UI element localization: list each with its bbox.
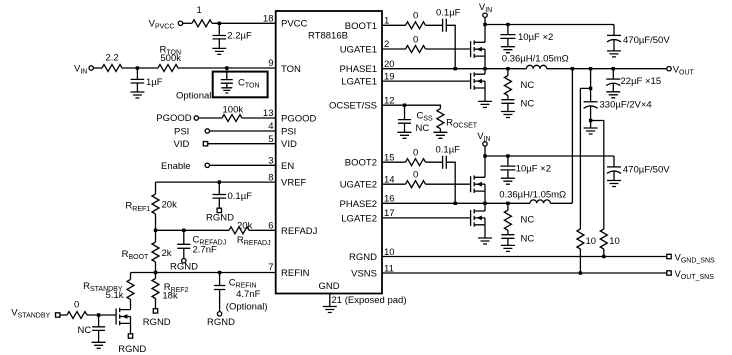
svg-text:2.7nF: 2.7nF xyxy=(193,244,217,255)
svg-text:NC: NC xyxy=(78,325,92,336)
IC pin 4 PSI xyxy=(268,121,296,138)
wire R0 to Q5 gate xyxy=(87,314,116,316)
capacitor 0.1uF (VREF) xyxy=(213,182,227,208)
ground (1uF) xyxy=(130,92,144,98)
svg-text:VIN: VIN xyxy=(74,64,87,76)
junction REFADJ / CREFADJ xyxy=(182,229,185,232)
wire pin 2 UGATE1 to R0 xyxy=(382,48,406,50)
resistor 0 (BOOT2) xyxy=(406,159,426,166)
IC U1 RT8816B body xyxy=(276,11,382,294)
svg-text:Enable: Enable xyxy=(161,161,191,172)
ground (470uF phase1) xyxy=(607,51,621,57)
ground (CTON) xyxy=(221,88,232,93)
wire VIN terminal to R2 xyxy=(93,67,102,69)
svg-text:PHASE1: PHASE1 xyxy=(340,64,378,75)
junction VIN rail / 10uF (phase2) xyxy=(506,154,509,157)
resistor RTON 500k xyxy=(158,65,178,72)
wire boot2 cap to PHASE2 node xyxy=(446,162,455,203)
ground (10uF phase2) xyxy=(501,178,515,184)
resistor NC (snubber phase2) xyxy=(504,203,511,234)
svg-text:PSI: PSI xyxy=(281,127,296,138)
capacitor CTON xyxy=(221,68,233,88)
resistor 0 (UGATE1) xyxy=(406,46,426,53)
wire pin 17 LGATE2 to Q4 gate xyxy=(382,217,471,219)
IC pin 3 EN xyxy=(268,156,294,172)
svg-text:OCSET/SS: OCSET/SS xyxy=(329,101,377,112)
svg-text:10µF ×2: 10µF ×2 xyxy=(516,164,551,175)
capacitor CSS (NC) xyxy=(398,105,411,132)
junction PHASE2 / boot cap return xyxy=(454,202,457,205)
wire Enable to pin 3 EN xyxy=(210,164,276,166)
svg-text:4.7nF: 4.7nF xyxy=(236,289,260,300)
terminal RGND (Q5 source) xyxy=(128,334,132,338)
svg-text:500k: 500k xyxy=(160,53,181,64)
capacitor 1uF xyxy=(131,68,145,92)
wire VIN to rail (phase1) xyxy=(484,17,486,24)
wire RREFADJ to RREF1 column xyxy=(156,229,230,231)
svg-text:EN: EN xyxy=(281,161,294,172)
wire Q3 drain xyxy=(484,156,486,177)
resistor 10 (VOUT sense) xyxy=(577,229,584,249)
junction REFIN / RREF2 xyxy=(154,271,157,274)
resistor R1 1 xyxy=(192,20,212,27)
svg-text:470µF/50V: 470µF/50V xyxy=(623,35,670,46)
wire Q2 drain to PHASE1 xyxy=(484,69,486,75)
svg-text:0.1µF: 0.1µF xyxy=(436,144,461,155)
wire Q3 source to PHASE2 xyxy=(484,191,486,203)
wire rail to 470uF (phase1) xyxy=(613,25,615,36)
svg-text:7: 7 xyxy=(268,262,273,273)
ground (330uF) xyxy=(584,128,598,134)
svg-text:22µF ×15: 22µF ×15 xyxy=(621,76,662,87)
resistor RREF2 18k xyxy=(152,279,159,299)
ground (snubber phase1) xyxy=(501,112,515,118)
svg-text:VIN: VIN xyxy=(479,2,492,14)
wire REFIN to RSTANDBY xyxy=(130,273,132,280)
svg-text:20k: 20k xyxy=(162,199,178,210)
svg-text:0: 0 xyxy=(74,300,79,311)
wire boot1 cap to PHASE1 node xyxy=(446,25,455,68)
svg-text:RREF1: RREF1 xyxy=(125,201,150,213)
svg-text:NC: NC xyxy=(521,80,535,91)
svg-text:RGND: RGND xyxy=(206,213,234,224)
terminal PGOOD xyxy=(194,116,198,120)
capacitor NC (snubber phase1) xyxy=(501,100,514,112)
svg-text:VGND_SNS: VGND_SNS xyxy=(675,253,716,265)
IC pin 11 VSNS xyxy=(351,263,394,279)
wire RSTANDBY to Q5 drain xyxy=(130,299,132,309)
capacitor NC (standby) xyxy=(92,315,105,342)
wire Q4 source to ground xyxy=(484,225,486,238)
svg-text:2.2µF: 2.2µF xyxy=(227,31,252,42)
junction standby NC cap xyxy=(97,313,100,316)
ground (standby NC cap) xyxy=(92,342,106,348)
resistor 0 (UGATE2) xyxy=(406,181,426,188)
transistor Q1 (high-side phase1) xyxy=(471,40,485,58)
svg-text:RGND: RGND xyxy=(349,252,377,263)
junction VOUT / 330uF xyxy=(589,67,592,70)
svg-text:0.36µH/1.05mΩ: 0.36µH/1.05mΩ xyxy=(499,189,566,200)
svg-text:(Optional): (Optional) xyxy=(226,302,268,313)
wire VIN rail (phase2) xyxy=(485,155,614,157)
wire PGOOD terminal to R100k xyxy=(199,117,223,119)
ground (exposed pad) xyxy=(323,307,337,313)
terminal RGND (RREF2) xyxy=(153,309,157,313)
ground (snubber phase2) xyxy=(501,245,515,251)
svg-text:VPVCC: VPVCC xyxy=(149,19,175,31)
junction PHASE1 / FETs xyxy=(483,67,486,70)
IC pin 1 BOOT1 xyxy=(345,16,390,32)
resistor 100k (PGOOD) xyxy=(222,115,242,122)
svg-text:470µF/50V: 470µF/50V xyxy=(623,164,670,175)
svg-text:CSS: CSS xyxy=(417,110,434,122)
svg-text:PHASE2: PHASE2 xyxy=(340,199,378,210)
svg-text:UGATE1: UGATE1 xyxy=(340,45,377,56)
junction 330uF ground node xyxy=(589,119,592,122)
wire Q5 source to RGND xyxy=(130,323,132,333)
svg-text:1: 1 xyxy=(197,5,202,16)
svg-text:VREF: VREF xyxy=(281,178,307,189)
svg-text:RGND: RGND xyxy=(207,317,235,328)
wire PSI to pin 4 xyxy=(210,130,276,132)
wire sense tap jog to left sense column xyxy=(580,88,590,229)
terminal VIN (phase2) xyxy=(483,142,487,146)
wire UGATE2 R0 to Q3 gate xyxy=(426,183,471,185)
wire VOUT to 330uF xyxy=(590,69,592,102)
svg-text:Optional: Optional xyxy=(176,91,211,102)
resistor 10 (GND sense) xyxy=(600,229,607,249)
svg-text:10: 10 xyxy=(586,236,597,247)
capacitor 22uF x15 xyxy=(606,69,620,92)
transistor Q3 (high-side phase2) xyxy=(471,175,485,193)
terminal VSTANDBY xyxy=(56,313,60,317)
terminal VID xyxy=(203,142,207,146)
wire VIN to rail (phase2) xyxy=(484,146,486,156)
svg-text:REFIN: REFIN xyxy=(281,268,310,279)
terminal VIN xyxy=(89,66,93,70)
inductor L2 0.36uH/1.05mohm xyxy=(530,200,550,203)
svg-text:NC: NC xyxy=(416,123,430,134)
svg-text:RGND: RGND xyxy=(143,317,171,328)
ground (22uF) xyxy=(606,92,620,98)
junction PHASE2 / NC snubber xyxy=(506,202,509,205)
svg-text:PVCC: PVCC xyxy=(281,19,308,30)
junction VSNS / VOUT sense R xyxy=(579,271,582,274)
wire VSTANDBY to R0 xyxy=(60,314,67,316)
capacitor 470uF/50V (phase2) xyxy=(607,167,621,181)
IC pin 14 UGATE2 xyxy=(340,175,395,191)
IC pin 12 OCSET/SS xyxy=(329,96,395,112)
svg-text:TON: TON xyxy=(281,64,301,75)
wire pin 14 UGATE2 to R0 xyxy=(382,183,406,185)
svg-text:VOUT_SNS: VOUT_SNS xyxy=(675,269,715,281)
wire R0 to C boot2 xyxy=(426,161,443,163)
svg-text:BOOT2: BOOT2 xyxy=(345,158,377,169)
resistor 0 (standby) xyxy=(67,312,87,319)
junction OCSET / CSS xyxy=(403,104,406,107)
wire GND pad stub xyxy=(329,294,331,307)
svg-text:LGATE2: LGATE2 xyxy=(341,213,377,224)
svg-text:VSTANDBY: VSTANDBY xyxy=(11,308,50,320)
IC pin 7 REFIN xyxy=(268,262,309,279)
svg-text:2.2: 2.2 xyxy=(106,53,119,64)
IC pin 6 REFADJ xyxy=(268,221,317,237)
resistor NC (snubber phase1) xyxy=(504,69,511,100)
wire Q2 source to ground xyxy=(484,88,486,101)
svg-text:20k: 20k xyxy=(237,220,253,231)
resistor RREF1 20k xyxy=(152,194,159,214)
capacitor 10uF x2 (phase2) xyxy=(500,156,515,178)
ground (Q4 source) xyxy=(478,238,492,244)
svg-text:NC: NC xyxy=(521,215,535,226)
svg-text:VID: VID xyxy=(174,139,190,150)
wire L2 to VOUT column xyxy=(550,202,572,204)
junction VREF / 0.1uF xyxy=(218,180,221,183)
svg-text:ROCSET: ROCSET xyxy=(446,118,478,130)
svg-text:0.36µH/1.05mΩ: 0.36µH/1.05mΩ xyxy=(502,53,569,64)
svg-text:RGND: RGND xyxy=(118,344,146,355)
wire RREF2 to RGND terminal xyxy=(155,299,157,309)
wire pin 16 PHASE2 line xyxy=(382,202,530,204)
capacitor 10uF x2 (phase1) xyxy=(500,25,515,47)
svg-text:1µF: 1µF xyxy=(146,77,163,88)
junction VIN / 1uF xyxy=(136,66,139,69)
IC pin 18 PVCC xyxy=(263,13,308,29)
wire RTON to pin 9 TON xyxy=(178,67,276,69)
resistor RBOOT 2k xyxy=(152,242,159,262)
svg-text:LGATE1: LGATE1 xyxy=(341,77,377,88)
junction PHASE1 / NC snubber xyxy=(506,67,509,70)
svg-text:NC: NC xyxy=(521,233,535,244)
IC pin 20 PHASE1 xyxy=(340,59,395,75)
wire pin 15 BOOT2 to R0 xyxy=(382,161,406,163)
optional box around CTON xyxy=(213,72,268,98)
transistor Q2 (low-side phase1) xyxy=(471,72,485,90)
wire VOUT down to L2 output xyxy=(571,69,573,204)
capacitor 470uF/50V (phase1) xyxy=(607,35,621,51)
junction VIN rail / Q3 drain xyxy=(483,154,486,157)
wire pin 11 VSNS sense line xyxy=(382,272,667,274)
terminal VPVCC xyxy=(178,21,182,25)
svg-text:GND: GND xyxy=(319,281,340,292)
junction VIN rail / Q1 drain xyxy=(483,23,486,26)
junction REFADJ / RREF1 / RBOOT xyxy=(154,229,157,232)
wire R1 to pin 18 PVCC xyxy=(212,22,276,24)
wire pin 6 REFADJ to RREFADJ xyxy=(249,229,276,231)
wire RREF2 top xyxy=(155,273,157,279)
junction PVCC / 2.2uF xyxy=(218,22,221,25)
IC pin 8 VREF xyxy=(268,172,306,188)
junction RGND / GND sense R xyxy=(602,255,605,258)
terminal VOUT_SNS xyxy=(667,271,671,275)
IC pin 15 BOOT2 xyxy=(345,153,395,169)
svg-text:100k: 100k xyxy=(223,105,244,116)
capacitor NC (snubber phase2) xyxy=(501,235,514,246)
svg-text:BOOT1: BOOT1 xyxy=(345,21,377,32)
IC pin 9 TON xyxy=(268,58,301,75)
wire VOUT sense R to VSNS line xyxy=(579,249,581,273)
wire 100k to pin 13 PGOOD xyxy=(242,117,276,119)
wire ground sense jog to right sense column xyxy=(591,121,604,230)
terminal VGND_SNS xyxy=(667,254,671,258)
svg-text:CREFIN: CREFIN xyxy=(229,278,257,290)
svg-text:0: 0 xyxy=(413,169,418,180)
capacitor CREFADJ 2.7nF xyxy=(177,230,190,258)
junction PHASE2 / FETs xyxy=(483,202,486,205)
junction REFIN / CREFIN xyxy=(218,271,221,274)
junction VOUT / 22uF xyxy=(612,67,615,70)
svg-text:VOUT: VOUT xyxy=(673,65,695,77)
junction VOUT / sense column xyxy=(571,67,574,70)
svg-text:UGATE2: UGATE2 xyxy=(340,180,377,191)
wire Q1 drain xyxy=(484,25,486,43)
wire Q4 drain to PHASE2 xyxy=(484,203,486,211)
svg-text:2k: 2k xyxy=(162,248,172,259)
wire VIN rail (phase1) xyxy=(485,24,614,26)
terminal VOUT xyxy=(667,67,671,71)
wire RREF1 to REFADJ row xyxy=(155,214,157,230)
svg-text:PGOOD: PGOOD xyxy=(156,113,192,124)
wire UGATE1 R0 to Q1 gate xyxy=(426,48,471,50)
IC pin 21 GND exposed pad xyxy=(319,281,407,306)
wire pin 8 VREF to RREF1 column xyxy=(156,181,276,183)
IC pin 13 PGOOD xyxy=(263,108,317,125)
transistor Q4 (low-side phase2) xyxy=(471,209,485,227)
terminal RGND (CREFADJ) xyxy=(182,259,186,263)
svg-text:0: 0 xyxy=(413,34,418,45)
svg-text:PSI: PSI xyxy=(174,127,189,138)
svg-text:0: 0 xyxy=(413,11,418,22)
ground (470uF phase2) xyxy=(607,181,621,187)
resistor RSTANDBY 5.1k xyxy=(127,279,134,299)
wire L1 to VOUT terminal xyxy=(547,68,667,70)
terminal VIN (phase1) xyxy=(483,13,487,17)
wire VID to pin 5 xyxy=(208,143,276,145)
svg-text:REFADJ: REFADJ xyxy=(281,226,318,237)
wire pin 19 LGATE1 to Q2 gate xyxy=(382,80,471,82)
ground (CSS) xyxy=(398,132,412,138)
wire rail to 470uF (phase2) xyxy=(613,156,615,167)
junction PHASE1 / boot cap return xyxy=(454,67,457,70)
svg-text:10µF ×2: 10µF ×2 xyxy=(518,32,553,43)
IC pin 17 LGATE2 xyxy=(341,208,394,224)
junction TON / CTON xyxy=(225,66,228,69)
ground (2.2uF) xyxy=(212,48,226,54)
ground (Q2 source) xyxy=(478,101,492,107)
wire R0 to C boot1 xyxy=(426,24,443,26)
resistor 0 (BOOT1) xyxy=(406,22,426,29)
wire pin 12 OCSET/SS xyxy=(382,105,440,109)
svg-text:RBOOT: RBOOT xyxy=(122,249,149,261)
transistor Q5 (standby N-MOSFET) xyxy=(116,308,130,326)
wire VREF column to RREF1 xyxy=(155,182,157,194)
terminal RGND (CREFIN) xyxy=(217,312,221,316)
resistor ROCSET xyxy=(437,109,444,129)
resistor R2 2.2 xyxy=(102,65,122,72)
svg-text:RGND: RGND xyxy=(170,261,198,272)
wire R2 to RTON xyxy=(122,67,158,69)
wire RBOOT top xyxy=(155,230,157,242)
terminal PSI xyxy=(205,129,209,133)
wire pin 10 RGND sense line xyxy=(382,256,667,258)
svg-text:CTON: CTON xyxy=(238,78,260,90)
junction VIN rail / 10uF xyxy=(506,23,509,26)
terminal Enable xyxy=(205,163,209,167)
svg-text:0.1µF: 0.1µF xyxy=(228,191,253,202)
svg-text:5.1k: 5.1k xyxy=(106,290,124,301)
svg-text:PGOOD: PGOOD xyxy=(281,114,317,125)
svg-text:330µF/2V×4: 330µF/2V×4 xyxy=(600,100,652,111)
IC pin 10 RGND xyxy=(349,247,395,263)
wire pin 20 PHASE1 line xyxy=(382,68,526,70)
svg-text:RREFADJ: RREFADJ xyxy=(237,235,271,247)
ground (ROCSET) xyxy=(433,132,447,138)
capacitor CREFIN 4.7nF xyxy=(214,273,225,312)
capacitor 0.1uF (BOOT1) xyxy=(443,19,447,32)
IC pin 5 VID xyxy=(268,134,297,150)
ground (10uF phase1) xyxy=(501,47,515,53)
svg-text:VID: VID xyxy=(281,139,297,150)
svg-text:NC: NC xyxy=(521,98,535,109)
terminal RGND (VREF 0.1uF) xyxy=(217,208,221,212)
IC pin 16 PHASE2 xyxy=(340,194,395,210)
svg-text:VSNS: VSNS xyxy=(351,269,377,280)
inductor L1 0.36uH/1.05mohm xyxy=(526,65,546,68)
junction VOUT sense tap xyxy=(589,87,592,90)
svg-text:0: 0 xyxy=(413,147,418,158)
wire Q1 source to PHASE1 xyxy=(484,56,486,69)
resistor RREFADJ 20k xyxy=(229,227,249,234)
capacitor 0.1uF (BOOT2) xyxy=(443,156,447,169)
capacitor 2.2uF xyxy=(213,23,227,48)
wire pin 7 REFIN row xyxy=(131,272,276,274)
wire VPVCC terminal to R1 xyxy=(183,22,192,24)
wire pin 1 BOOT1 to R0 xyxy=(382,24,406,26)
svg-text:18k: 18k xyxy=(162,291,178,302)
svg-text:0.1µF: 0.1µF xyxy=(436,8,461,19)
IC pin 19 LGATE1 xyxy=(341,71,394,87)
wire ROCSET to ground xyxy=(439,129,441,133)
capacitor 330uF/2V x4 xyxy=(584,102,598,128)
svg-text:10: 10 xyxy=(609,236,620,247)
wire RBOOT to REFIN row xyxy=(155,262,157,273)
wire GND sense R to RGND line xyxy=(603,249,605,257)
svg-text:RT8816B: RT8816B xyxy=(308,31,348,42)
svg-text:21 (Exposed pad): 21 (Exposed pad) xyxy=(332,295,407,306)
IC pin 2 UGATE1 xyxy=(340,39,390,56)
